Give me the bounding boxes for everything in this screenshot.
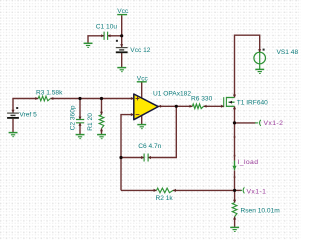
wire Vcc stem to node [121,15,123,36]
svg-text:R6 330: R6 330 [191,96,213,103]
svg-text:C6 4.7n: C6 4.7n [138,143,161,150]
capacitor C2 plates [76,120,84,123]
voltage source VS1 circle [254,52,266,69]
ground at C2 [76,135,85,139]
wire R2 row left [121,189,157,191]
Vcc bus symbol top [117,14,127,16]
wire C6 row right [148,106,176,157]
wire R1 bottom lead [101,128,103,134]
wire Rsen to ground [234,217,236,227]
svg-text:I_load: I_load [238,159,259,166]
wire inverting input [121,115,134,191]
svg-text:Vx1-1: Vx1-1 [247,189,267,196]
transistor T1 body arrow [229,101,232,104]
wire output to R6 [158,105,192,107]
VS1 plus mark [263,49,265,51]
svg-text:R1 20: R1 20 [87,113,94,131]
svg-text:C2 360p: C2 360p [70,105,77,130]
ground at Rsen [230,227,239,231]
op-amp plus input mark [136,97,140,101]
junction output node [175,105,178,108]
junction C1-Vcc node [120,34,123,37]
junction Vx1-1 node [233,189,236,192]
current arrow I_load [232,161,236,171]
junction Vx1-2 node [233,121,236,124]
capacitor C6 plates [144,154,148,162]
svg-text:VS1 48: VS1 48 [277,49,299,56]
svg-text:U1 OPAx182: U1 OPAx182 [153,90,191,97]
op-amp minus input mark [136,114,140,116]
junction R1 node [100,97,103,100]
svg-text:Rsen 10.01m: Rsen 10.01m [241,207,281,214]
svg-text:Vcc: Vcc [117,8,129,15]
wire op-amp gnd pin [141,115,143,124]
junction feedback node [119,156,122,159]
svg-text:R3 1.58k: R3 1.58k [36,89,63,96]
ground at op-amp [137,125,146,129]
ground at R1 [97,135,106,139]
terminal arrow marks [11,34,261,219]
wire Vx1-1 node to Rsen [234,190,236,202]
ground at C1 [84,43,93,47]
resistor Rsen [232,203,237,217]
ground at Vref [9,133,18,137]
wire I_load to Vx1-1 node [234,170,236,190]
svg-text:Vcc 12: Vcc 12 [130,47,150,54]
wire R6 to gate [204,105,224,107]
svg-text:T1 IRF640: T1 IRF640 [237,99,268,106]
wire Vx1-1 tap [235,189,242,191]
wire input row R3 to op-amp [50,98,133,100]
wire op-amp V+ pin [141,82,143,98]
transistor T1 MOSFET body [224,97,235,107]
wire C6 row left [121,157,144,159]
ground at Vcc battery [117,68,126,72]
wire C2 top lead [79,99,81,120]
wire R1 top lead [101,99,103,115]
svg-text:Vx1-2: Vx1-2 [264,120,284,127]
wire Vref to input row [13,99,38,113]
wire Vx1-2 tap [235,122,256,124]
wire battery V3 to ground [121,53,123,67]
capacitor C1 plates [104,32,108,40]
ground at VS1 [255,69,264,73]
wire VS1 top loop [235,35,260,97]
wire source to Vx1-2 node [234,106,236,160]
wire R2 row right [173,189,235,191]
op-amp U1 triangle [134,94,158,120]
Vcc bus symbol at op-amp [137,81,147,83]
voltage pin marker Vx1-1 [241,187,245,193]
resistor R2 [157,188,174,193]
terminal tick marks [234,136,236,178]
wire C1 row left [88,36,104,43]
battery Vcc 12 [116,40,128,53]
wire C1 row right [108,35,122,37]
junction C2 node [78,97,81,100]
svg-text:Vref 5: Vref 5 [19,111,37,118]
voltage pin marker Vx1-2 [255,120,261,126]
wire node to battery V3 [121,36,123,47]
resistor R1 [99,115,104,129]
resistor R6 [192,104,203,109]
svg-text:R2 1k: R2 1k [156,195,174,202]
wire Vref to ground [12,119,14,132]
resistor R3 [38,96,50,101]
svg-text:C1 10u: C1 10u [96,24,118,31]
battery Vref 5 [7,107,19,118]
svg-text:Vcc: Vcc [137,76,149,83]
wire C2 bottom lead [79,123,81,134]
